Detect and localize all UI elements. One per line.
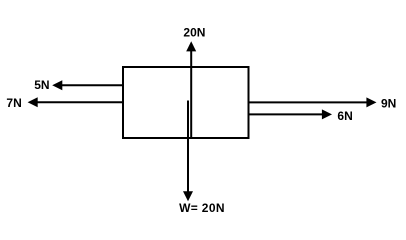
wire: 5N force line [61, 84, 123, 86]
arrowhead up (20N) [186, 41, 196, 51]
svg-text:5N: 5N [34, 78, 49, 92]
arrowhead right (9N) [366, 97, 376, 107]
arrowhead right (6N) [322, 109, 332, 119]
wire: 9N force line [249, 101, 368, 103]
svg-text:6N: 6N [337, 109, 352, 123]
wire: upward force line through box [190, 51, 192, 139]
arrowhead left (7N) [28, 97, 38, 107]
wire: weight line (offset) [187, 101, 189, 192]
wire: 6N force line [249, 113, 324, 115]
box (free body) [123, 67, 249, 138]
svg-text:9N: 9N [381, 97, 396, 111]
arrowhead left (5N) [52, 80, 62, 90]
svg-text:W= 20N: W= 20N [179, 201, 225, 215]
svg-text:7N: 7N [6, 96, 21, 110]
svg-text:20N: 20N [183, 26, 205, 40]
arrowhead down (W) [183, 191, 193, 201]
wire: 7N force line [37, 101, 124, 103]
